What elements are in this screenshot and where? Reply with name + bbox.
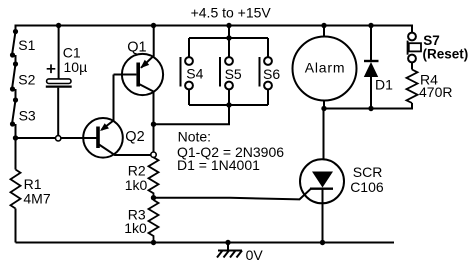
svg-text:D1 = 1N4001: D1 = 1N4001 xyxy=(177,157,260,173)
svg-text:10µ: 10µ xyxy=(64,59,88,75)
junction dot R2/R3 xyxy=(151,195,156,200)
junction dot SCR cathode xyxy=(320,240,325,245)
wire S6 drop xyxy=(267,38,269,57)
transistor Q1 xyxy=(114,39,164,95)
junction dot rail S5 xyxy=(226,23,231,28)
svg-text:D1: D1 xyxy=(375,77,393,93)
resistor R1 xyxy=(11,170,51,209)
switch S1 xyxy=(10,29,36,58)
svg-text:SCR: SCR xyxy=(353,164,383,180)
resistor R4 xyxy=(407,70,453,104)
wire S-bank bottom bus xyxy=(189,104,268,106)
junction dot bottom bus xyxy=(226,102,231,107)
wire Q1 emitter to rail xyxy=(153,26,155,57)
svg-text:S2: S2 xyxy=(18,72,35,88)
svg-text:470R: 470R xyxy=(419,84,452,100)
wire S6 bottom drop xyxy=(267,89,269,105)
node open circle C1 bottom xyxy=(56,136,61,141)
svg-text:Q2: Q2 xyxy=(125,129,144,145)
junction dot ground xyxy=(225,240,230,245)
switch S6 xyxy=(260,57,281,89)
wire S-bank feed xyxy=(228,26,230,39)
junction dot rail alarm xyxy=(321,23,326,28)
svg-text:1k0: 1k0 xyxy=(124,220,147,236)
transistor Q2 xyxy=(83,118,144,158)
junction dot alarm bottom xyxy=(321,106,326,111)
label +4.5 to +15V xyxy=(191,5,272,21)
svg-text:S7: S7 xyxy=(423,33,440,48)
capacitor C1 xyxy=(46,25,87,137)
switch S3 xyxy=(10,97,36,126)
wire left vertical xyxy=(15,25,17,243)
wire Q2 collector to R2 top xyxy=(115,154,152,156)
svg-text:Note:: Note: xyxy=(178,128,211,144)
svg-text:S5: S5 xyxy=(225,66,242,82)
wire SCR gate xyxy=(154,189,311,200)
diode D1 xyxy=(364,26,393,109)
junction dot rail C1 xyxy=(56,23,61,28)
svg-text:+4.5 to +15V: +4.5 to +15V xyxy=(191,5,272,21)
junction dot rail D1 xyxy=(368,23,373,28)
svg-text:4M7: 4M7 xyxy=(23,190,50,206)
junction dot collector node xyxy=(151,122,156,127)
svg-text:S4: S4 xyxy=(186,65,203,81)
wire S4 bottom drop xyxy=(188,89,190,105)
wire Q2 emitter to Q1 base xyxy=(113,75,115,121)
svg-text:S6: S6 xyxy=(263,66,280,82)
supply rail +V top xyxy=(15,25,412,27)
wire Q2 base xyxy=(16,137,97,139)
switch S2 xyxy=(10,61,36,91)
wire alarm top xyxy=(323,26,325,37)
wire S5 bottom drop xyxy=(228,89,230,105)
junction dot D1 bottom xyxy=(368,106,373,111)
junction dot top bus xyxy=(226,35,231,40)
svg-text:Q1: Q1 xyxy=(127,39,146,55)
wire SCR anode xyxy=(323,109,325,160)
node open circle R2 top xyxy=(151,152,156,157)
wire bottom right to R4 xyxy=(324,103,412,109)
switch S7 (reset) xyxy=(408,25,469,70)
svg-text:S3: S3 xyxy=(19,107,36,123)
svg-text:Alarm: Alarm xyxy=(305,59,346,75)
wire SCR cathode xyxy=(322,189,324,243)
wire S4 drop xyxy=(188,38,190,57)
svg-text:1k0: 1k0 xyxy=(125,177,148,193)
wire S-bank top bus xyxy=(189,37,268,39)
wire alarm bottom xyxy=(323,100,325,108)
svg-text:(Reset): (Reset) xyxy=(423,47,469,62)
SCR Q3 C106 xyxy=(300,159,384,203)
ground rail 0V bottom xyxy=(16,242,395,244)
ground symbol xyxy=(217,243,263,263)
node junction left (base wire) xyxy=(13,135,18,140)
switch S4 xyxy=(181,57,204,89)
wire bus to collector node xyxy=(154,105,230,124)
svg-text:S1: S1 xyxy=(18,37,35,53)
junction dot rail Q1 xyxy=(151,23,156,28)
junction dot R3 bottom xyxy=(151,240,156,245)
resistor R3 xyxy=(124,200,158,243)
wire S5 drop xyxy=(228,38,230,57)
alarm BZ1 xyxy=(293,37,357,101)
switch S5 xyxy=(220,57,242,89)
svg-text:C106: C106 xyxy=(350,179,384,195)
wire Q1 collector down xyxy=(153,91,155,152)
resistor R2 xyxy=(125,157,159,197)
note text xyxy=(177,128,284,173)
svg-text:0V: 0V xyxy=(246,247,264,263)
